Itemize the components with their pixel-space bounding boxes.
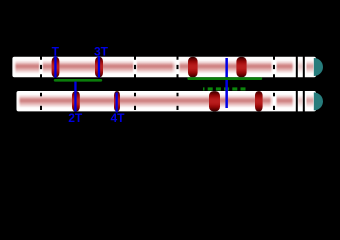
svg-text:2T: 2T — [68, 111, 83, 125]
svg-text:4T: 4T — [110, 111, 125, 125]
svg-text:T: T — [52, 45, 60, 59]
svg-text:3T: 3T — [94, 45, 109, 59]
